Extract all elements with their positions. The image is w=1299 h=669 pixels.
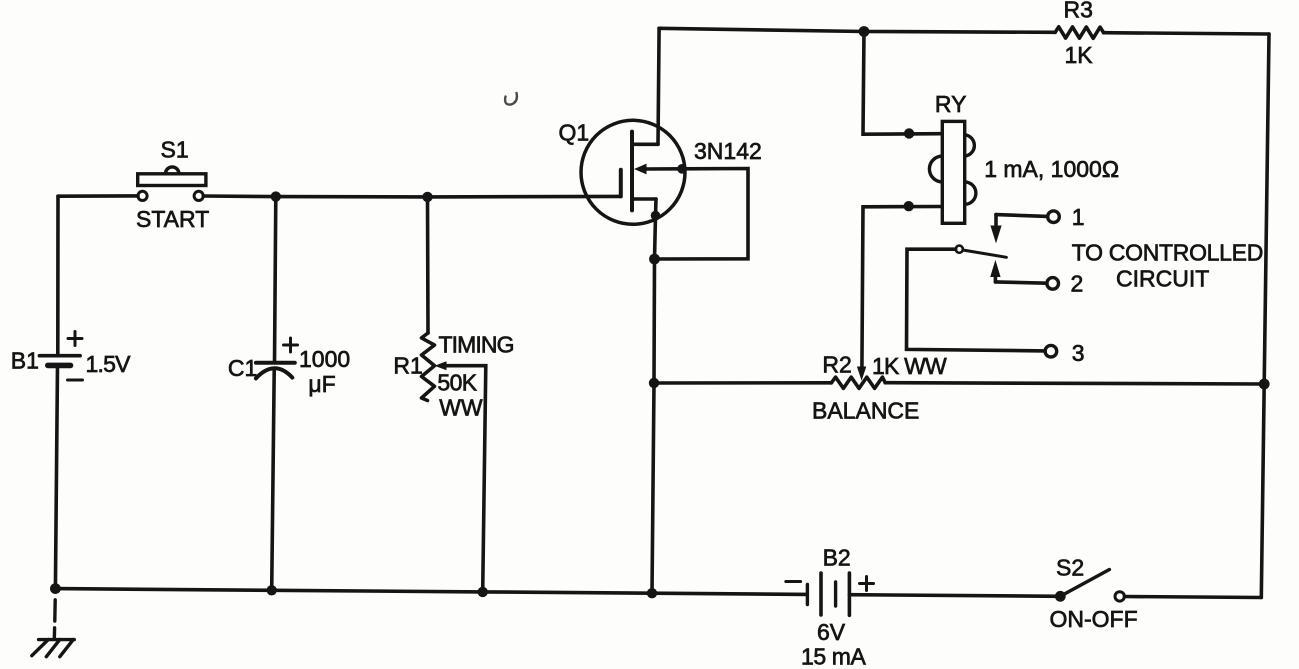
node balance rail left junction (649, 378, 659, 388)
battery B1 (39, 356, 80, 366)
wire Q1 source down (652, 199, 656, 593)
R1 wiper arrow (435, 361, 447, 370)
node C1 bottom junction (267, 585, 277, 595)
svg-text:S1: S1 (161, 137, 189, 163)
node substrate exit dot (677, 164, 687, 174)
label B1 plus (68, 332, 82, 346)
node R1 wiper bottom junction (478, 587, 488, 597)
svg-text:1000: 1000 (299, 346, 350, 372)
transistor Q1 (581, 120, 685, 224)
svg-text:BALANCE: BALANCE (812, 398, 919, 424)
svg-text:R2: R2 (822, 352, 851, 378)
svg-text:S2: S2 (1056, 555, 1084, 581)
wire left rail upper (56, 196, 60, 356)
wire balance rail left (654, 381, 831, 385)
wire R1 wiper (445, 366, 486, 592)
svg-text:1.5V: 1.5V (86, 351, 132, 377)
node source-substrate junction (649, 254, 660, 265)
resistor R1 (422, 333, 435, 401)
node source exit dot (651, 211, 661, 221)
node Q1 source bottom junction (647, 588, 657, 598)
svg-text:RY: RY (935, 91, 967, 117)
svg-text:μF: μF (308, 371, 335, 397)
svg-text:CIRCUIT: CIRCUIT (1116, 266, 1209, 292)
svg-text:3: 3 (1072, 340, 1085, 366)
wire R1 branch upper (426, 197, 430, 333)
svg-text:2: 2 (1071, 271, 1084, 297)
wire Q1 substrate loop (645, 169, 748, 260)
wire bottom rail right (1125, 597, 1262, 598)
svg-text:ON-OFF: ON-OFF (1050, 606, 1138, 632)
wire top rail (659, 28, 1055, 32)
relay coil RY (929, 121, 975, 223)
svg-text:WW: WW (439, 395, 483, 421)
relay armature (956, 246, 1007, 258)
R2 wiper arrow (857, 367, 866, 381)
relay contact 1 wire and arrow (990, 215, 1047, 244)
node junction C1 top (271, 191, 281, 201)
wire right rail (1261, 34, 1269, 598)
svg-text:TIMING: TIMING (439, 332, 514, 358)
node balance rail right junction (1259, 379, 1270, 390)
relay contact 2 wire and arrow (990, 260, 1047, 283)
resistor R3 (1055, 27, 1103, 39)
svg-text:B1: B1 (11, 348, 39, 374)
wire armature to contact 3 (907, 249, 1046, 351)
ground (32, 640, 75, 657)
node relay bottom terminal dot (904, 201, 914, 211)
svg-text:R1: R1 (393, 353, 422, 379)
capacitor C1 (256, 363, 295, 379)
svg-text:1K WW: 1K WW (872, 353, 947, 379)
wire C1 branch upper (275, 197, 276, 363)
svg-text:Q1: Q1 (559, 120, 590, 146)
switch S1 pushbutton (138, 167, 206, 201)
contact 1 terminal (1048, 211, 1060, 223)
wire relay bottom terminal (862, 207, 941, 372)
label B1 minus (68, 379, 83, 382)
svg-text:TO CONTROLLED: TO CONTROLLED (1072, 240, 1263, 266)
wire left rail lower (55, 365, 57, 588)
node relay top terminal dot (904, 128, 914, 138)
svg-text:1: 1 (1072, 204, 1085, 230)
svg-text:1 mA, 1000Ω: 1 mA, 1000Ω (984, 156, 1119, 182)
resistor R2 (831, 377, 885, 388)
svg-text:B2: B2 (823, 545, 851, 571)
label C1 plus (284, 338, 298, 352)
wire bottom rail left (55, 589, 807, 595)
wire C1 branch lower (272, 371, 275, 590)
node bottom-left junction (50, 583, 61, 594)
wire top rail right (1104, 33, 1269, 34)
svg-text:R3: R3 (1064, 0, 1093, 23)
battery B2 (807, 573, 849, 615)
wire bottom rail middle (849, 595, 1060, 597)
ground dashed lead (53, 600, 57, 640)
wire gate rail left segment (58, 194, 138, 198)
label B2 plus (860, 577, 874, 591)
svg-text:1K: 1K (1065, 42, 1094, 68)
wire relay feed (863, 32, 941, 135)
wire gate rail right segment (203, 194, 621, 198)
svg-text:START: START (136, 206, 209, 232)
svg-text:15 mA: 15 mA (801, 644, 867, 669)
wire Q1 drain up (658, 28, 659, 144)
label B2 minus (786, 580, 801, 583)
svg-text:6V: 6V (817, 619, 846, 645)
contact 3 terminal (1045, 345, 1057, 357)
contact 2 terminal (1047, 278, 1059, 290)
wire balance rail right (885, 383, 1264, 384)
svg-text:50K: 50K (437, 370, 477, 396)
svg-text:3N142: 3N142 (694, 138, 762, 164)
node top rail junction (859, 26, 870, 37)
switch S2 (1055, 570, 1125, 602)
svg-text:C1: C1 (228, 355, 257, 381)
node junction R1 top (422, 192, 432, 202)
